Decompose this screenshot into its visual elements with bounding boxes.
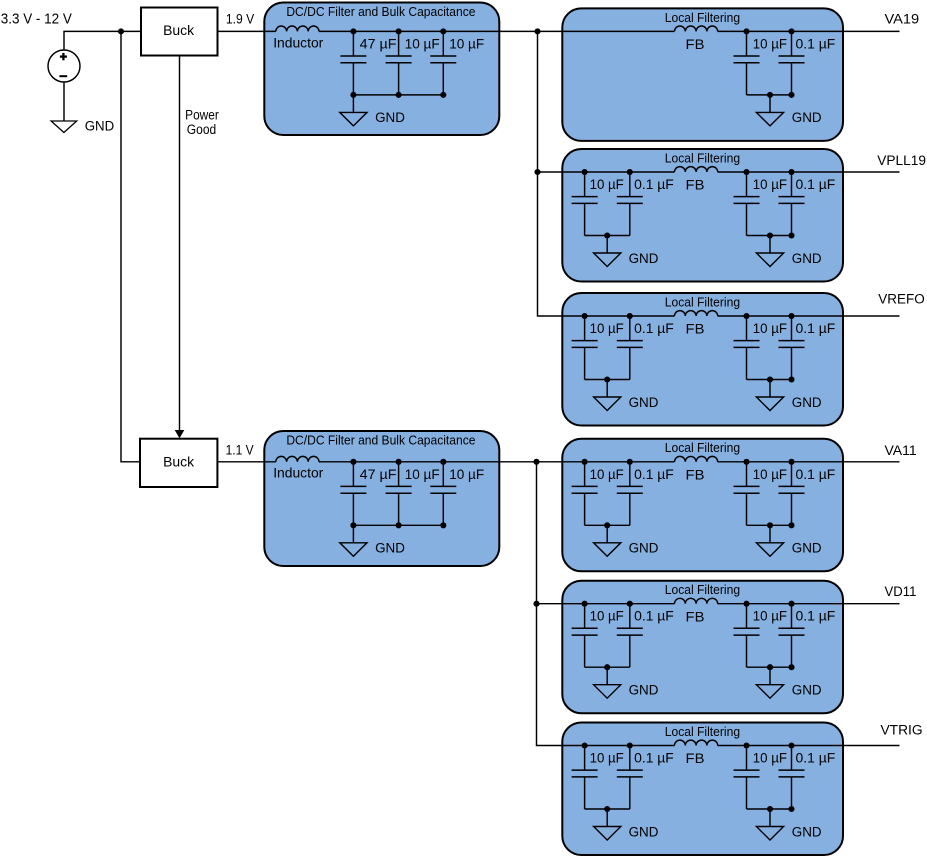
svg-text:Buck: Buck xyxy=(163,22,194,38)
svg-text:GND: GND xyxy=(792,395,822,411)
svg-text:VA11: VA11 xyxy=(885,442,917,458)
svg-text:Local Filtering: Local Filtering xyxy=(665,10,740,25)
svg-text:1.9 V: 1.9 V xyxy=(226,11,255,26)
svg-text:10 µF: 10 µF xyxy=(590,467,624,483)
svg-text:Good: Good xyxy=(187,122,216,137)
svg-text:10 µF: 10 µF xyxy=(449,36,484,52)
svg-text:Buck: Buck xyxy=(163,454,194,470)
svg-text:VTRIG: VTRIG xyxy=(881,722,923,738)
svg-text:GND: GND xyxy=(792,251,822,267)
svg-text:0.1 µF: 0.1 µF xyxy=(634,467,674,483)
svg-text:VPLL19: VPLL19 xyxy=(877,152,926,168)
svg-text:0.1 µF: 0.1 µF xyxy=(634,751,674,767)
svg-text:10 µF: 10 µF xyxy=(753,177,787,193)
svg-text:Local Filtering: Local Filtering xyxy=(665,582,740,597)
svg-text:Power: Power xyxy=(185,108,219,123)
svg-text:GND: GND xyxy=(375,541,405,557)
svg-text:GND: GND xyxy=(629,395,659,411)
svg-text:0.1 µF: 0.1 µF xyxy=(634,321,674,337)
svg-text:GND: GND xyxy=(792,110,822,126)
svg-text:10 µF: 10 µF xyxy=(405,467,440,483)
svg-text:GND: GND xyxy=(629,541,659,557)
svg-text:0.1 µF: 0.1 µF xyxy=(796,467,836,483)
svg-text:3.3 V - 12 V: 3.3 V - 12 V xyxy=(1,11,72,27)
svg-text:DC/DC Filter and Bulk Capacita: DC/DC Filter and Bulk Capacitance xyxy=(286,433,475,448)
svg-text:10 µF: 10 µF xyxy=(590,609,624,625)
svg-text:FB: FB xyxy=(686,467,705,483)
svg-text:10 µF: 10 µF xyxy=(753,467,787,483)
svg-text:10 µF: 10 µF xyxy=(590,751,624,767)
svg-text:10 µF: 10 µF xyxy=(753,751,787,767)
svg-text:0.1 µF: 0.1 µF xyxy=(634,609,674,625)
svg-text:FB: FB xyxy=(686,322,705,338)
svg-text:10 µF: 10 µF xyxy=(590,321,624,337)
svg-text:Inductor: Inductor xyxy=(273,35,323,51)
svg-text:0.1 µF: 0.1 µF xyxy=(796,36,836,52)
svg-text:FB: FB xyxy=(686,37,705,53)
svg-text:Local Filtering: Local Filtering xyxy=(665,440,740,455)
svg-text:FB: FB xyxy=(686,178,705,194)
svg-text:VA19: VA19 xyxy=(885,11,920,27)
svg-text:Local Filtering: Local Filtering xyxy=(665,150,740,165)
svg-text:0.1 µF: 0.1 µF xyxy=(796,177,836,193)
svg-text:FB: FB xyxy=(686,609,705,625)
svg-text:Local Filtering: Local Filtering xyxy=(665,724,740,739)
svg-text:Local Filtering: Local Filtering xyxy=(665,294,740,309)
svg-text:GND: GND xyxy=(792,824,822,840)
svg-text:DC/DC Filter and Bulk Capacita: DC/DC Filter and Bulk Capacitance xyxy=(286,4,475,19)
svg-text:GND: GND xyxy=(792,541,822,557)
svg-text:Inductor: Inductor xyxy=(273,466,323,482)
svg-text:GND: GND xyxy=(375,110,405,126)
svg-text:VD11: VD11 xyxy=(885,583,917,599)
svg-text:10 µF: 10 µF xyxy=(753,36,787,52)
svg-text:10 µF: 10 µF xyxy=(405,36,440,52)
svg-text:VREFO: VREFO xyxy=(878,290,924,306)
svg-text:0.1 µF: 0.1 µF xyxy=(796,751,836,767)
svg-text:47 µF: 47 µF xyxy=(360,36,397,52)
svg-text:10 µF: 10 µF xyxy=(449,467,484,483)
svg-text:GND: GND xyxy=(629,824,659,840)
svg-text:FB: FB xyxy=(686,751,705,767)
svg-text:0.1 µF: 0.1 µF xyxy=(634,177,674,193)
svg-text:10 µF: 10 µF xyxy=(590,177,624,193)
svg-text:0.1 µF: 0.1 µF xyxy=(796,321,836,337)
svg-text:1.1 V: 1.1 V xyxy=(226,443,255,458)
svg-text:GND: GND xyxy=(629,683,659,699)
svg-text:GND: GND xyxy=(629,251,659,267)
svg-text:GND: GND xyxy=(792,683,822,699)
svg-text:0.1 µF: 0.1 µF xyxy=(796,609,836,625)
svg-text:10 µF: 10 µF xyxy=(753,321,787,337)
svg-text:GND: GND xyxy=(85,118,115,134)
svg-text:10 µF: 10 µF xyxy=(753,609,787,625)
svg-text:47 µF: 47 µF xyxy=(360,467,397,483)
